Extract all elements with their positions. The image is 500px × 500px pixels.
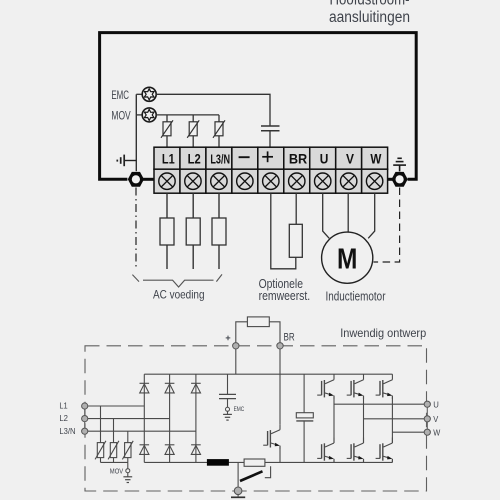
svg-text:AC voeding: AC voeding [153,288,205,301]
svg-text:L3/N: L3/N [59,427,75,436]
svg-text:L1: L1 [59,401,68,410]
svg-text:remweerst.: remweerst. [259,289,311,303]
svg-text:EMC: EMC [111,88,129,102]
svg-text:Inductiemotor: Inductiemotor [326,290,386,304]
svg-text:MOV: MOV [110,467,123,476]
svg-text:aansluitingen: aansluitingen [329,9,410,26]
svg-text:L2: L2 [59,414,68,423]
svg-text:U: U [320,150,329,166]
svg-text:EMC: EMC [234,406,245,413]
svg-text:L3/N: L3/N [210,152,230,166]
svg-text:Inwendig ontwerp: Inwendig ontwerp [340,327,426,340]
svg-text:W: W [433,428,440,438]
svg-text:L1: L1 [162,150,175,166]
svg-text:M: M [337,244,357,276]
svg-text:L2: L2 [188,150,201,166]
svg-text:BR: BR [289,150,307,166]
svg-text:Hoofdstroom-: Hoofdstroom- [330,0,410,9]
svg-text:BR: BR [284,331,295,343]
svg-text:V: V [433,414,438,424]
svg-text:U: U [433,400,439,410]
svg-text:V: V [346,150,355,166]
svg-text:MOV: MOV [111,109,131,123]
svg-text:W: W [370,150,382,166]
